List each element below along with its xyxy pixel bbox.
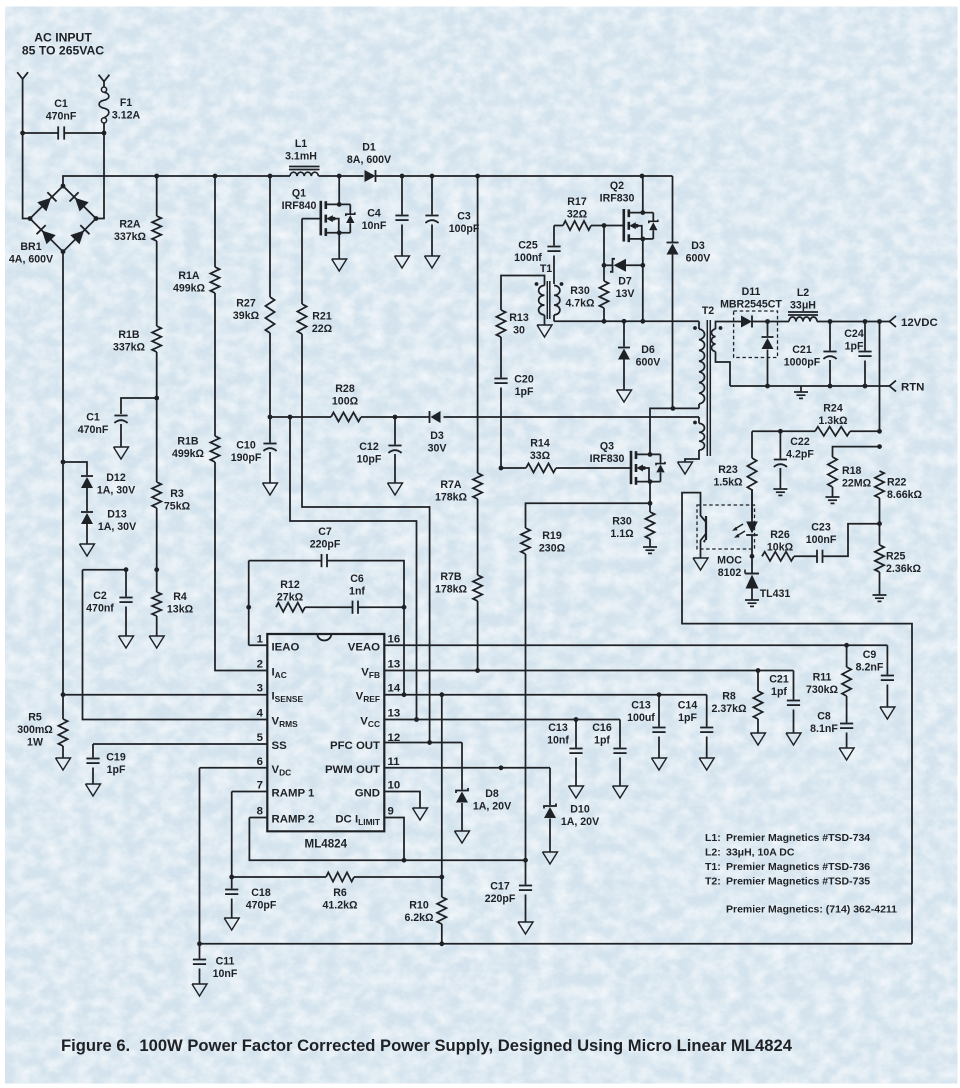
svg-text:R26: R26: [770, 529, 790, 541]
resistor R18: [826, 444, 882, 503]
wire: pin10 GND: [384, 792, 427, 821]
wire: T1 left top to R13: [501, 276, 545, 311]
svg-text:C22: C22: [790, 436, 810, 448]
wire: pin4 VRMS row: [83, 567, 268, 719]
wire: VEAO comp drop: [403, 607, 405, 695]
svg-text:D13: D13: [107, 509, 127, 521]
svg-text:6.2kΩ: 6.2kΩ: [404, 912, 434, 924]
terminal: RTN: [890, 381, 925, 394]
svg-text:C25: C25: [518, 240, 538, 252]
svg-text:1A, 20V: 1A, 20V: [473, 800, 511, 812]
svg-text:33Ω: 33Ω: [530, 450, 551, 462]
svg-text:10nF: 10nF: [362, 220, 387, 232]
svg-text:32Ω: 32Ω: [567, 208, 588, 220]
svg-text:41.2kΩ: 41.2kΩ: [322, 899, 358, 911]
svg-text:10nF: 10nF: [213, 968, 238, 980]
svg-text:499kΩ: 499kΩ: [172, 448, 205, 460]
svg-text:33μH: 33μH: [790, 299, 816, 311]
svg-text:1pf: 1pf: [594, 734, 610, 746]
resistor R4: [149, 570, 193, 648]
svg-text:C23: C23: [811, 522, 831, 534]
svg-text:8.1nF: 8.1nF: [810, 723, 838, 735]
svg-text:L1:: L1:: [705, 832, 721, 844]
op-amp U1 ML4824 body: [267, 634, 384, 851]
svg-text:100uf: 100uf: [627, 712, 655, 724]
svg-text:Figure 6. 100W Power Factor C: Figure 6. 100W Power Factor Corrected Po…: [61, 1036, 793, 1055]
svg-text:22Ω: 22Ω: [312, 323, 333, 335]
svg-text:10nf: 10nf: [547, 734, 569, 746]
svg-text:D10: D10: [570, 804, 590, 816]
resistor R25: [873, 524, 922, 602]
diode D3 (30V): [428, 411, 447, 454]
capacitor C6: [349, 573, 406, 614]
svg-text:8.2nF: 8.2nF: [856, 661, 884, 673]
ground: T2 aux bottom: [678, 450, 700, 474]
wire: pin5 SS row: [93, 743, 267, 745]
wire: T2 aux top pin: [698, 417, 700, 423]
resistor R30 (1.1): [610, 503, 657, 553]
wire: pin16 VEAO row: [384, 643, 887, 648]
svg-text:85 TO 265VAC: 85 TO 265VAC: [22, 44, 104, 58]
svg-text:2: 2: [257, 659, 263, 671]
svg-text:R2A: R2A: [119, 219, 141, 231]
wire: T2 secondary top pin: [716, 322, 735, 330]
svg-text:C14: C14: [678, 700, 698, 712]
svg-text:Premier Magnetics #TSD-735: Premier Magnetics #TSD-735: [726, 876, 870, 888]
svg-text:C1: C1: [54, 98, 68, 110]
svg-text:R13: R13: [509, 312, 529, 324]
resistor R21: [297, 219, 429, 743]
svg-text:R10: R10: [409, 900, 429, 912]
svg-text:100pF: 100pF: [449, 223, 480, 235]
zener D10: [543, 768, 600, 864]
resistor R5: [17, 712, 70, 771]
svg-text:MBR2545CT: MBR2545CT: [720, 298, 782, 310]
capacitor C13 (10nf): [547, 720, 583, 799]
svg-text:SS: SS: [272, 740, 288, 752]
terminal: 12VDC: [890, 316, 938, 329]
svg-text:L2:: L2:: [705, 847, 721, 859]
svg-text:1.3kΩ: 1.3kΩ: [818, 415, 848, 427]
resistor R11: [806, 645, 851, 722]
capacitor C16: [592, 720, 627, 799]
wire: PWM primary rail y321: [554, 319, 699, 324]
svg-text:C8: C8: [817, 711, 831, 723]
svg-text:1pF: 1pF: [107, 764, 126, 776]
svg-text:C24: C24: [844, 328, 864, 340]
ground: RTN: [794, 386, 808, 398]
svg-text:R4: R4: [173, 591, 187, 603]
svg-text:PFC OUT: PFC OUT: [330, 740, 380, 752]
capacitor C4: [362, 176, 410, 268]
svg-text:Premier Magnetics #TSD-734: Premier Magnetics #TSD-734: [726, 832, 870, 844]
svg-text:C7: C7: [318, 526, 332, 538]
wire: pin15 VFB row: [384, 668, 793, 673]
wire: pin9 DC ILIMIT: [384, 818, 404, 861]
svg-text:8: 8: [257, 806, 263, 818]
svg-text:R11: R11: [813, 672, 832, 684]
label: magnetics notes: [705, 832, 897, 916]
svg-text:R30: R30: [612, 516, 632, 528]
resistor R19: [521, 503, 650, 858]
svg-text:30: 30: [513, 324, 525, 336]
fuse F1: [99, 87, 140, 123]
capacitor C3: [425, 176, 480, 268]
svg-text:RAMP 2: RAMP 2: [272, 814, 315, 826]
svg-text:190pF: 190pF: [231, 452, 262, 464]
resistor R30 (4.7k): [565, 265, 608, 321]
svg-text:3: 3: [257, 683, 263, 695]
svg-text:R17: R17: [567, 196, 587, 208]
shunt regulator TL431: [745, 554, 790, 607]
svg-text:R6: R6: [333, 887, 347, 899]
svg-text:6: 6: [257, 756, 263, 768]
svg-text:600V: 600V: [686, 252, 711, 264]
bridge rectifier BR1: [9, 184, 98, 266]
diode D6: [617, 321, 661, 402]
resistor R1A: [173, 176, 220, 294]
svg-text:Premier Magnetics #TSD-736: Premier Magnetics #TSD-736: [726, 861, 870, 873]
svg-text:C10: C10: [236, 440, 256, 452]
svg-text:1.1Ω: 1.1Ω: [610, 528, 634, 540]
svg-text:C21: C21: [792, 344, 812, 356]
wire: opto collector loop: [682, 493, 912, 944]
svg-text:Q3: Q3: [600, 441, 614, 453]
svg-text:8A, 600V: 8A, 600V: [347, 154, 391, 166]
wire: pin1 IEAO stub: [249, 561, 268, 646]
svg-text:3.12A: 3.12A: [112, 109, 141, 121]
capacitor C18: [224, 877, 277, 930]
svg-text:C6: C6: [350, 573, 364, 585]
svg-text:C21: C21: [769, 674, 789, 686]
svg-text:C18: C18: [251, 887, 271, 899]
ground: opto emitter: [693, 549, 708, 570]
svg-text:27kΩ: 27kΩ: [277, 591, 304, 603]
svg-text:C13: C13: [548, 722, 568, 734]
resistor R23: [713, 431, 756, 518]
svg-text:C11: C11: [216, 956, 235, 968]
wire: Q1 drain to rail: [338, 176, 340, 204]
terminal: AC input right: [99, 75, 110, 87]
svg-text:10: 10: [388, 780, 401, 792]
svg-text:230Ω: 230Ω: [539, 542, 566, 554]
svg-text:D3: D3: [691, 240, 705, 252]
svg-text:9: 9: [388, 806, 394, 818]
svg-text:IRF840: IRF840: [282, 200, 317, 212]
wire: Q3 source node: [648, 482, 653, 506]
svg-text:600V: 600V: [636, 356, 661, 368]
svg-text:IRF830: IRF830: [600, 192, 635, 204]
diode D12: [63, 462, 135, 511]
svg-text:300mΩ: 300mΩ: [17, 724, 53, 736]
svg-text:T1:: T1:: [705, 861, 721, 873]
svg-text:C20: C20: [514, 374, 534, 386]
wire: pin8 RAMP2 loop: [249, 818, 527, 863]
svg-text:C4: C4: [367, 208, 381, 220]
svg-text:D12: D12: [106, 472, 126, 484]
capacitor C13 (100uf): [627, 695, 666, 770]
svg-text:T2: T2: [702, 305, 714, 317]
svg-text:L1: L1: [295, 138, 307, 150]
svg-text:1nf: 1nf: [349, 585, 365, 597]
capacitor C21 (1000uF): [784, 322, 837, 387]
svg-text:499kΩ: 499kΩ: [173, 282, 206, 294]
resistor R27: [233, 176, 275, 417]
svg-text:4.2pF: 4.2pF: [786, 448, 814, 460]
svg-text:4.7kΩ: 4.7kΩ: [565, 297, 595, 309]
svg-text:13V: 13V: [616, 288, 635, 300]
svg-text:ML4824: ML4824: [305, 838, 348, 851]
svg-text:R7A: R7A: [440, 479, 462, 491]
inductor L2: [768, 287, 890, 324]
wire: Q3 drain up to primary: [650, 406, 699, 454]
svg-text:13kΩ: 13kΩ: [167, 603, 194, 615]
svg-text:5: 5: [257, 732, 264, 744]
wire: Q1 gate line: [302, 218, 321, 220]
svg-text:1.5kΩ: 1.5kΩ: [713, 476, 743, 488]
svg-text:4A, 600V: 4A, 600V: [9, 253, 53, 265]
wire: 12VDC sense drop: [879, 322, 881, 432]
wire: Q2 source down: [642, 239, 644, 321]
capacitor C9: [856, 645, 895, 719]
svg-text:1A, 30V: 1A, 30V: [97, 484, 135, 496]
svg-text:470nF: 470nF: [78, 424, 109, 436]
svg-text:F1: F1: [120, 97, 132, 109]
svg-text:R7B: R7B: [440, 571, 462, 583]
svg-text:2.37kΩ: 2.37kΩ: [711, 703, 747, 715]
capacitor C21 (1pf): [769, 671, 801, 746]
ground: T1 left bottom: [537, 315, 552, 337]
capacitor C12: [357, 417, 403, 495]
svg-text:D11: D11: [742, 286, 761, 298]
svg-text:R18: R18: [842, 465, 862, 477]
wire: pin13 VCC row: [384, 717, 620, 722]
svg-text:220pF: 220pF: [485, 893, 516, 905]
optocoupler MOC8102: [697, 489, 758, 579]
svg-text:220pF: 220pF: [310, 538, 341, 550]
svg-text:R30: R30: [570, 285, 590, 297]
resistor R2A: [114, 176, 161, 243]
svg-text:Premier Magnetics: (714) 362-4: Premier Magnetics: (714) 362-4211: [726, 904, 897, 916]
resistor R13: [496, 310, 528, 337]
op-amp U1 pin labels: [257, 633, 401, 827]
svg-text:RTN: RTN: [901, 382, 924, 394]
svg-text:C17: C17: [490, 881, 510, 893]
capacitor C1 (input X-cap): [23, 98, 104, 140]
svg-text:R14: R14: [530, 438, 550, 450]
svg-text:R19: R19: [542, 530, 562, 542]
svg-text:D8: D8: [485, 788, 499, 800]
label: AC INPUT: [22, 31, 104, 58]
svg-text:8.66kΩ: 8.66kΩ: [887, 489, 923, 501]
svg-text:12VDC: 12VDC: [901, 317, 938, 329]
capacitor C10: [231, 417, 278, 495]
svg-text:2.36kΩ: 2.36kΩ: [886, 563, 922, 575]
capacitor C20: [494, 337, 534, 468]
svg-text:R3: R3: [170, 488, 184, 500]
svg-text:C16: C16: [592, 722, 612, 734]
svg-text:100nf: 100nf: [514, 252, 542, 264]
svg-text:33μH, 10A DC: 33μH, 10A DC: [726, 847, 795, 859]
wire: Q2 gate net down: [602, 226, 607, 268]
svg-text:R28: R28: [335, 383, 355, 395]
svg-text:13: 13: [388, 708, 401, 720]
svg-text:178kΩ: 178kΩ: [435, 583, 468, 595]
svg-text:R23: R23: [718, 464, 738, 476]
transistor Q3 (IRF830): [590, 441, 665, 485]
svg-text:C13: C13: [631, 700, 651, 712]
resistor R26: [762, 529, 817, 561]
wire: main boost rail: [63, 174, 673, 186]
svg-text:178kΩ: 178kΩ: [435, 491, 468, 503]
svg-text:R21: R21: [312, 311, 332, 323]
svg-text:337kΩ: 337kΩ: [113, 341, 146, 353]
svg-text:RAMP 1: RAMP 1: [272, 788, 315, 800]
svg-text:R1B: R1B: [177, 436, 199, 448]
svg-text:730kΩ: 730kΩ: [806, 684, 839, 696]
svg-text:1pF: 1pF: [515, 386, 534, 398]
svg-text:1pF: 1pF: [678, 712, 697, 724]
svg-text:R22: R22: [887, 477, 907, 489]
svg-text:1pf: 1pf: [771, 686, 787, 698]
resistor R14: [499, 438, 631, 473]
capacitor C7: [249, 526, 404, 607]
svg-text:100Ω: 100Ω: [332, 395, 359, 407]
resistor R17: [554, 196, 624, 230]
svg-text:75kΩ: 75kΩ: [164, 500, 191, 512]
svg-text:22MΩ: 22MΩ: [842, 477, 872, 489]
transistor Q1 (IRF840): [282, 188, 355, 237]
capacitor C14: [678, 695, 714, 770]
svg-text:10pF: 10pF: [357, 453, 382, 465]
resistor R8: [711, 671, 765, 746]
svg-text:C2: C2: [93, 590, 107, 602]
resistor R28: [331, 383, 361, 422]
svg-text:TL431: TL431: [760, 588, 791, 600]
svg-text:13: 13: [388, 659, 401, 671]
capacitor C17: [485, 860, 533, 934]
diode D1: [347, 142, 391, 183]
transformer T2: [693, 305, 722, 456]
svg-text:MOC: MOC: [717, 555, 742, 567]
svg-text:Q2: Q2: [610, 180, 624, 192]
svg-text:C1: C1: [86, 412, 100, 424]
svg-text:C12: C12: [359, 441, 379, 453]
diode D13: [80, 509, 137, 557]
svg-text:GND: GND: [355, 788, 380, 800]
zener D8: [455, 743, 512, 844]
svg-text:R24: R24: [823, 403, 843, 415]
zener D7 (13V): [604, 259, 645, 300]
resistor R12: [246, 579, 352, 612]
wire: RTN rail: [730, 384, 890, 389]
transformer T1: [535, 263, 564, 319]
svg-text:1: 1: [257, 633, 264, 645]
capacitor C8: [810, 711, 854, 761]
svg-text:IRF830: IRF830: [590, 453, 625, 465]
capacitor C11: [192, 944, 238, 996]
wire: pin7 RAMP1 loop: [229, 792, 267, 880]
capacitor C23: [806, 522, 880, 563]
wire: AC left line down to bridge: [20, 84, 30, 219]
svg-text:1W: 1W: [27, 737, 43, 749]
svg-text:1A, 20V: 1A, 20V: [561, 816, 599, 828]
svg-text:PWM OUT: PWM OUT: [325, 764, 380, 776]
resistor R24: [752, 403, 882, 436]
svg-text:1pF: 1pF: [845, 340, 864, 352]
wire: pin3 ISENSE row: [63, 694, 267, 696]
svg-text:D7: D7: [618, 276, 632, 288]
wire: pin6 VDC loop: [197, 768, 267, 946]
svg-text:AC INPUT: AC INPUT: [34, 31, 92, 45]
wire: VCC riser: [290, 417, 417, 720]
svg-text:Q1: Q1: [292, 188, 306, 200]
svg-text:R25: R25: [886, 551, 906, 563]
svg-text:8102: 8102: [718, 567, 742, 579]
svg-text:VEAO: VEAO: [348, 641, 380, 653]
wire: VREF riser x441: [441, 695, 443, 877]
svg-text:39kΩ: 39kΩ: [233, 310, 260, 322]
resistor R22: [875, 471, 923, 526]
svg-text:T1: T1: [540, 263, 552, 275]
svg-text:470pF: 470pF: [246, 899, 277, 911]
resistor R3: [152, 482, 190, 572]
svg-text:7: 7: [257, 780, 263, 792]
wire: fuse to bridge right corner: [96, 123, 106, 219]
dual diode D11 (MBR2545CT): [720, 286, 782, 386]
svg-text:L2: L2: [797, 287, 809, 299]
resistor R7B: [435, 571, 482, 671]
svg-text:R8: R8: [722, 691, 736, 703]
svg-text:IEAO: IEAO: [272, 641, 300, 653]
capacitor C1 (470nF lower): [78, 398, 157, 459]
inductor L1: [285, 138, 319, 176]
wire: bottom VDC bus: [200, 941, 913, 946]
wire: pin12 PFC OUT row: [384, 740, 462, 745]
resistor R6: [232, 872, 444, 911]
resistor R1B (337k): [113, 241, 161, 482]
svg-text:R27: R27: [236, 298, 256, 310]
wire: pin14 VREF row: [384, 692, 706, 697]
svg-text:C9: C9: [863, 649, 877, 661]
wire: bridge negative rail: [61, 252, 66, 719]
svg-text:R1A: R1A: [178, 270, 200, 282]
wire: pin11 PWM OUT row: [384, 765, 550, 770]
wire: T1 right bottom: [553, 315, 555, 321]
capacitor C19: [86, 744, 126, 796]
capacitor C25: [514, 226, 560, 285]
svg-text:BR1: BR1: [20, 241, 41, 253]
capacitor C2: [86, 570, 133, 648]
resistor R7A: [435, 176, 482, 575]
diode D3 (600V): [667, 176, 711, 408]
resistor R10: [404, 877, 446, 944]
wire: VCC charge rail y417: [268, 415, 699, 420]
svg-text:1A, 30V: 1A, 30V: [98, 521, 136, 533]
svg-text:14: 14: [388, 683, 401, 695]
wire: T2 primary pins: [698, 321, 700, 408]
svg-text:D6: D6: [641, 344, 655, 356]
svg-text:1000pF: 1000pF: [784, 356, 821, 368]
svg-text:16: 16: [388, 633, 401, 645]
svg-text:3.1mH: 3.1mH: [285, 150, 317, 162]
svg-text:337kΩ: 337kΩ: [114, 231, 147, 243]
svg-text:T2:: T2:: [705, 876, 721, 888]
wire: Q1 source to ground: [332, 233, 347, 271]
transistor Q2 (IRF830): [600, 180, 658, 242]
terminal: AC input left: [17, 72, 28, 84]
label: figure caption: [61, 1036, 793, 1055]
